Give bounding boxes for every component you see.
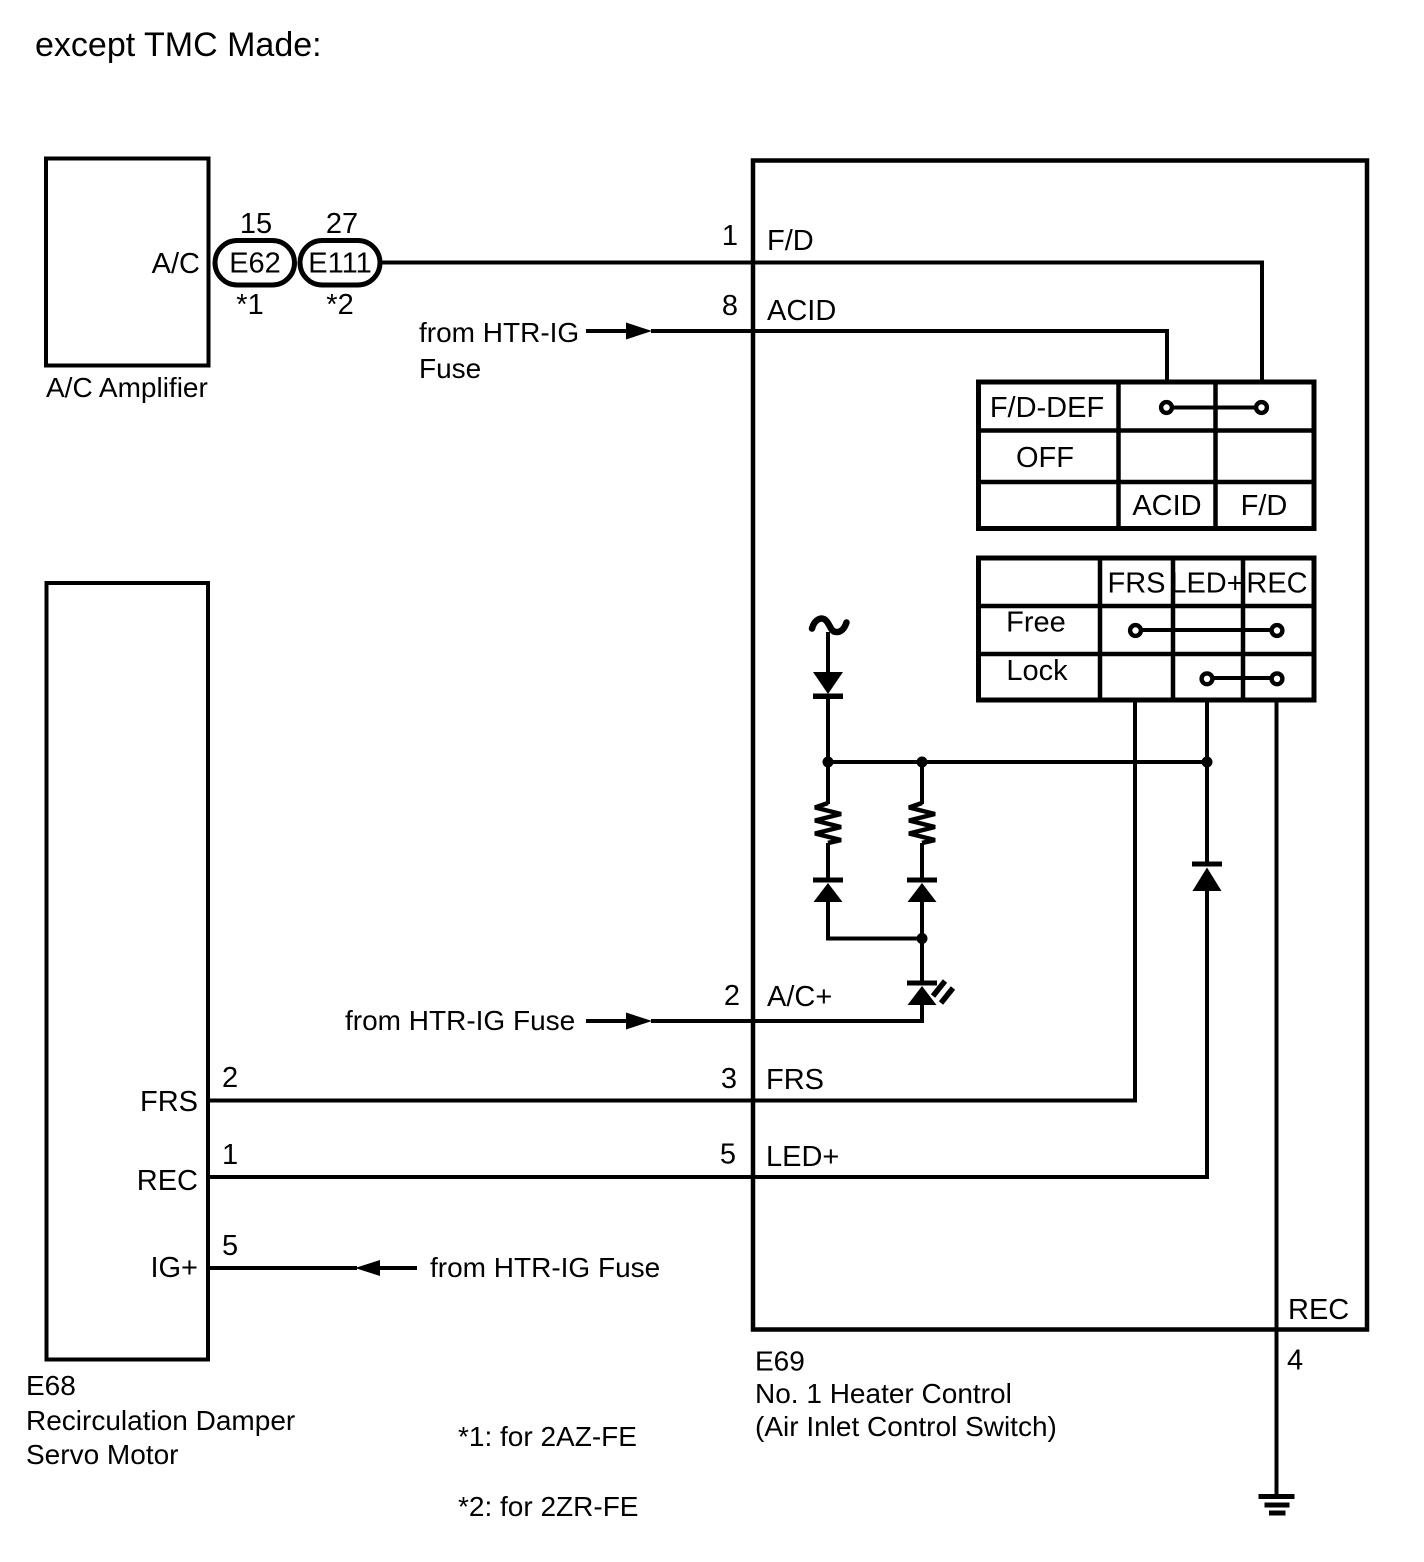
svg-text:2: 2 — [222, 1062, 238, 1094]
svg-text:REC: REC — [137, 1165, 198, 1197]
svg-text:3: 3 — [721, 1063, 737, 1095]
wire: R1 to diode D2 — [826, 843, 830, 879]
svg-text:4: 4 — [1287, 1345, 1303, 1377]
svg-text:A/C: A/C — [152, 248, 200, 280]
wire: junction to LED — [920, 939, 924, 983]
diode D4 on LED+ line — [1192, 862, 1222, 892]
svg-text:A/C Amplifier: A/C Amplifier — [46, 372, 208, 403]
LED D5 — [907, 981, 953, 1006]
svg-text:*2: for 2ZR-FE: *2: for 2ZR-FE — [458, 1491, 638, 1522]
wire A/C+: into pin 2 to LED branch — [651, 1019, 924, 1023]
svg-text:A/C+: A/C+ — [767, 981, 832, 1013]
svg-text:8: 8 — [722, 290, 738, 322]
wire: D3 to junction — [920, 900, 924, 939]
svg-text:Recirculation Damper: Recirculation Damper — [26, 1405, 295, 1436]
contact Free row — [1130, 625, 1282, 636]
svg-text:F/D: F/D — [1241, 490, 1288, 522]
resistor R1 — [815, 803, 841, 843]
wire REC: from table column down through box to ground — [1275, 700, 1279, 1494]
svg-text:FRS: FRS — [140, 1086, 198, 1118]
svg-text:27: 27 — [326, 208, 358, 240]
svg-text:Free: Free — [1006, 607, 1066, 639]
switch table Free/Lock — [979, 558, 1315, 700]
diode D2 (pointing up) — [813, 878, 843, 903]
svg-text:1: 1 — [222, 1139, 238, 1171]
svg-text:FRS: FRS — [766, 1064, 824, 1096]
A/C amplifier box — [46, 159, 209, 366]
svg-text:No. 1 Heater Control: No. 1 Heater Control — [755, 1378, 1012, 1409]
svg-text:5: 5 — [720, 1139, 736, 1171]
connector E111 — [300, 241, 380, 286]
svg-text:5: 5 — [222, 1230, 238, 1262]
junction dot left — [823, 757, 834, 768]
wire: D2 to lower junction — [828, 900, 922, 939]
connector E62 — [215, 241, 295, 286]
svg-text:E62: E62 — [229, 248, 281, 280]
svg-text:E68: E68 — [26, 1370, 76, 1401]
E68 box — [47, 583, 209, 1360]
svg-text:2: 2 — [724, 980, 740, 1012]
svg-text:REC: REC — [1246, 568, 1307, 600]
wire: node to resistor R2 — [920, 762, 924, 804]
resistor R2 — [909, 803, 935, 843]
svg-text:ACID: ACID — [1132, 490, 1201, 522]
svg-text:from HTR-IG Fuse: from HTR-IG Fuse — [430, 1252, 660, 1283]
svg-text:Lock: Lock — [1006, 655, 1068, 687]
svg-text:F/D: F/D — [767, 225, 814, 257]
svg-text:LED+: LED+ — [1170, 568, 1243, 600]
arrow into ACID wire — [586, 323, 652, 340]
svg-text:REC: REC — [1288, 1294, 1349, 1326]
svg-text:1: 1 — [722, 220, 738, 252]
switch table F/D-DEF — [979, 382, 1315, 529]
contact F/D-DEF row — [1161, 402, 1267, 413]
wire F/D: from E111 to switch table F/D column — [380, 263, 1262, 383]
arrow into A/C+ wire — [586, 1013, 652, 1030]
svg-text:OFF: OFF — [1016, 442, 1074, 474]
wire: diode D1 to node line — [826, 698, 830, 762]
wire FRS: from table column down to pin 3 and to E68 pin 2 — [210, 700, 1135, 1101]
svg-text:*1: for 2AZ-FE: *1: for 2AZ-FE — [458, 1421, 637, 1452]
junction dot on LED+ line — [1202, 757, 1213, 768]
svg-text:IG+: IG+ — [150, 1252, 198, 1284]
svg-text:E111: E111 — [308, 248, 371, 280]
label from HTR-IG Fuse (top) — [419, 317, 579, 384]
wire LED+ upper segment: table column down to diode — [1205, 700, 1209, 864]
arrow on IG+ wire (pointing left) — [355, 1260, 417, 1276]
wire: node to resistor R1 — [826, 762, 830, 804]
wire: R2 to diode D3 — [920, 843, 924, 879]
svg-text:Fuse: Fuse — [419, 353, 481, 384]
junction dot lower — [917, 933, 928, 944]
svg-text:*2: *2 — [326, 289, 353, 321]
contact Lock row — [1202, 673, 1283, 684]
svg-text:E69: E69 — [755, 1346, 805, 1377]
wire: LED to A/C+ wire — [920, 1003, 924, 1023]
junction dot middle — [917, 757, 928, 768]
svg-text:F/D-DEF: F/D-DEF — [990, 392, 1104, 424]
ground — [1259, 1497, 1295, 1514]
svg-text:from HTR-IG Fuse: from HTR-IG Fuse — [345, 1005, 575, 1036]
diode D1 (pointing down) — [813, 672, 843, 699]
wire LED+ lower segment: diode down to pin 5 and to E68 pin 1 — [210, 889, 1207, 1177]
svg-text:15: 15 — [240, 208, 272, 240]
svg-text:(Air Inlet Control Switch): (Air Inlet Control Switch) — [755, 1411, 1057, 1442]
svg-text:LED+: LED+ — [766, 1141, 839, 1173]
diode D3 (pointing up) — [907, 878, 937, 903]
svg-text:ACID: ACID — [767, 295, 836, 327]
node wire (horizontal) — [828, 760, 1207, 764]
svg-text:FRS: FRS — [1108, 568, 1166, 600]
E69 box — [753, 161, 1367, 1330]
svg-text:*1: *1 — [236, 289, 263, 321]
wire: squiggle to diode D1 — [826, 632, 830, 673]
svg-text:except TMC Made:: except TMC Made: — [35, 26, 322, 64]
wire ACID: into pin 8 and down to switch table — [651, 331, 1167, 382]
svg-text:Servo Motor: Servo Motor — [26, 1439, 179, 1470]
svg-text:from HTR-IG: from HTR-IG — [419, 317, 579, 348]
squiggle (wire continuation) at top of diode branch — [812, 619, 847, 633]
wire IG+ — [210, 1266, 357, 1270]
